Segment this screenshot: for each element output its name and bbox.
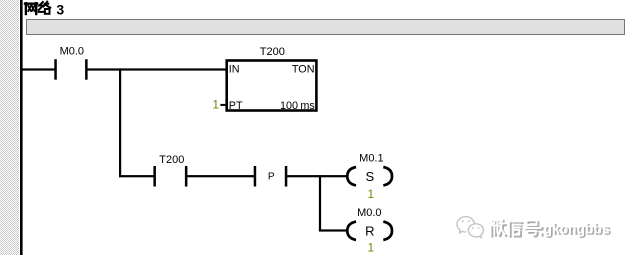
svg-text:ms: ms: [300, 100, 315, 112]
svg-text:P: P: [268, 172, 275, 183]
svg-text:100: 100: [280, 100, 298, 112]
svg-text:gkongbbs: gkongbbs: [544, 220, 610, 237]
svg-text:TON: TON: [292, 63, 315, 75]
svg-text:M0.0: M0.0: [60, 45, 84, 57]
svg-text:M0.1: M0.1: [359, 152, 383, 164]
svg-text:R: R: [365, 224, 374, 239]
svg-text:1: 1: [368, 241, 375, 255]
svg-text:1: 1: [212, 98, 219, 112]
svg-text:3: 3: [56, 1, 64, 17]
svg-text:S: S: [365, 169, 374, 184]
svg-text:M0.0: M0.0: [357, 207, 381, 219]
svg-text:1: 1: [368, 187, 375, 201]
svg-text:PT: PT: [229, 100, 243, 112]
svg-text:T200: T200: [260, 46, 285, 58]
svg-text:T200: T200: [159, 154, 184, 166]
svg-text:IN: IN: [229, 63, 240, 75]
